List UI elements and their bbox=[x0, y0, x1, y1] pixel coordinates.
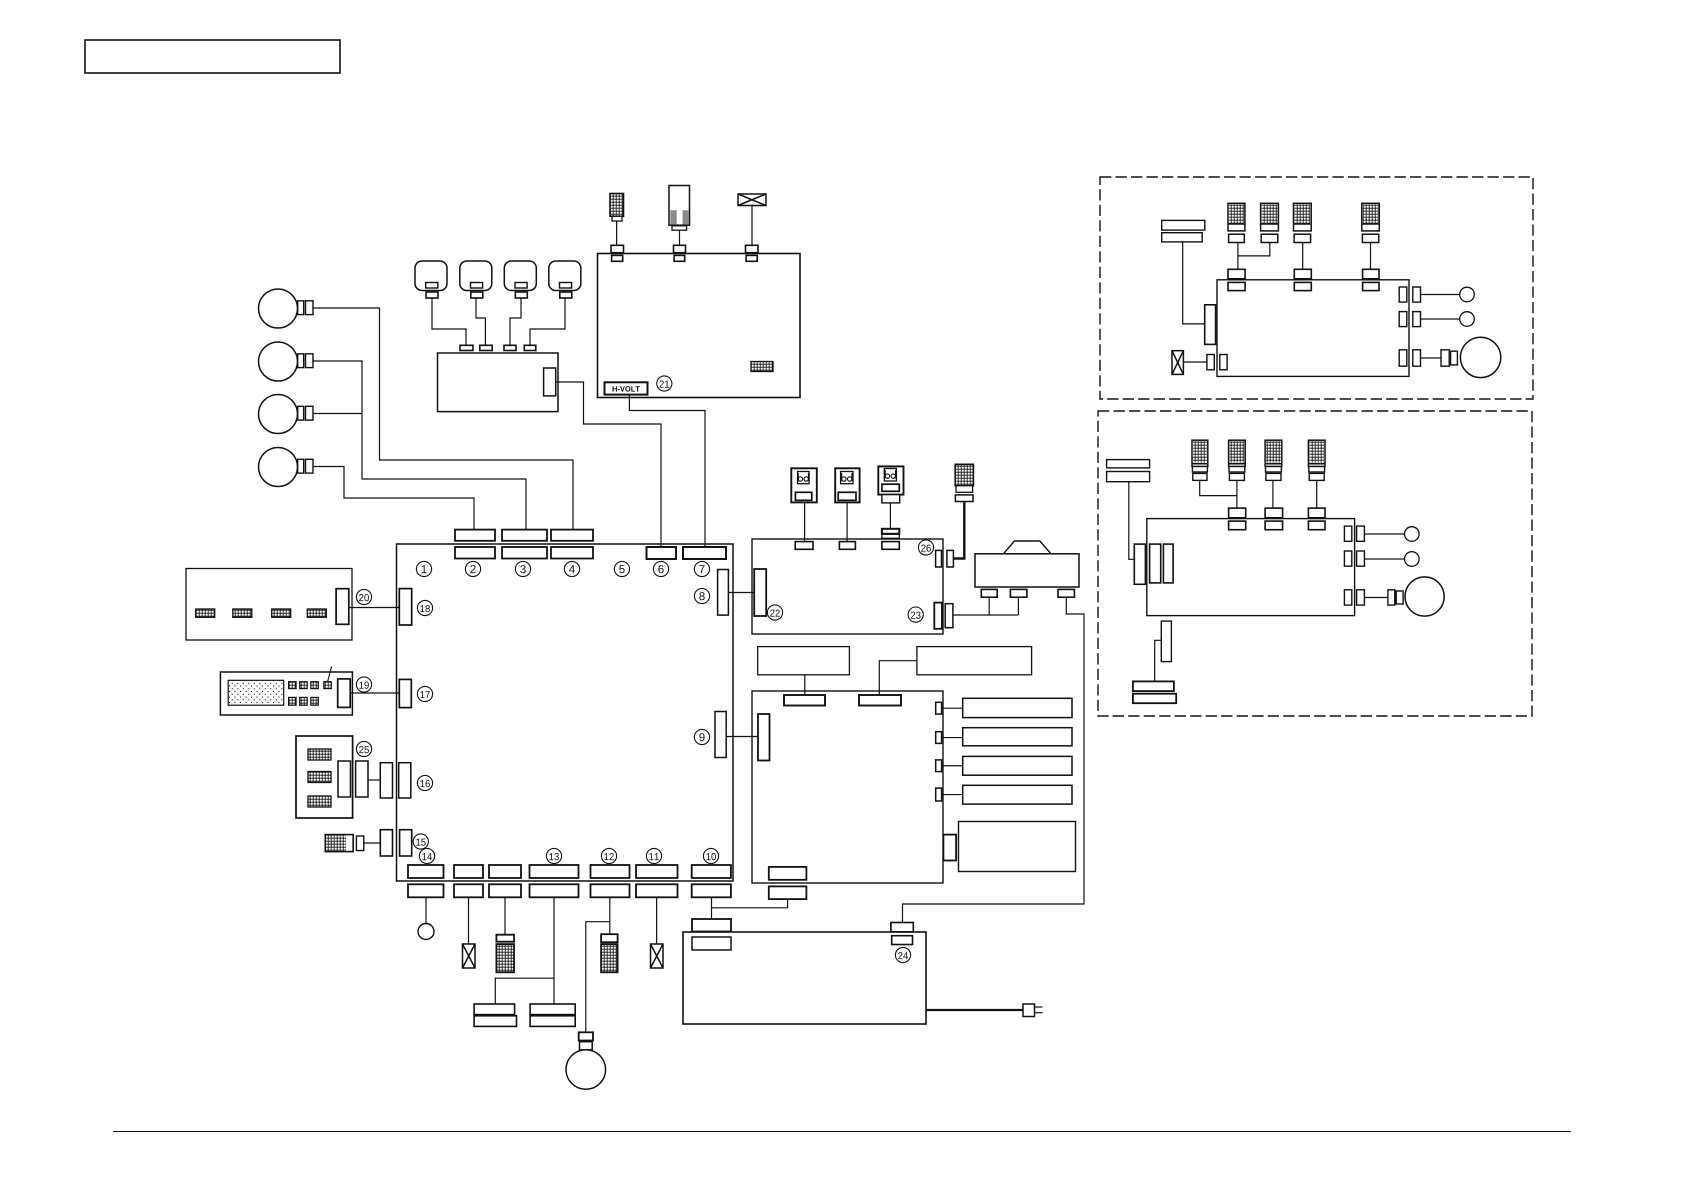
connector CN17 bbox=[399, 679, 411, 707]
connector chain 15a bbox=[380, 830, 392, 856]
wire SL3 bbox=[510, 298, 521, 345]
option slot box 2 bbox=[963, 728, 1072, 746]
connector pair main board bottom x489 bbox=[489, 865, 521, 897]
node label 1 bbox=[416, 561, 431, 576]
connector PCB2 right #2 bbox=[936, 732, 942, 744]
clutch CL6 (hatched) bbox=[1229, 440, 1246, 480]
clutch CL2 (hatched) bbox=[1261, 203, 1279, 242]
option unit 1 dashed outline bbox=[1100, 177, 1533, 399]
AC noise filter unit bbox=[975, 541, 1079, 587]
footer rule bbox=[113, 1131, 1571, 1133]
wire CL7 bbox=[1272, 480, 1274, 508]
hatched component on HV board bbox=[751, 362, 773, 372]
clutch CL7 (hatched) bbox=[1265, 440, 1282, 480]
connector PCB2 top2 bbox=[859, 695, 901, 706]
stacked connector component bbox=[1133, 681, 1176, 703]
connector 22 on fuser left bbox=[754, 569, 766, 616]
sub board A (solenoid driver) bbox=[438, 353, 559, 412]
clutch CL4 (hatched) bbox=[1362, 203, 1380, 242]
toner solenoid SL2 bbox=[460, 261, 492, 298]
wire CB bbox=[679, 230, 681, 245]
wire B1 bbox=[804, 675, 806, 695]
interlock switch box 25 bbox=[296, 736, 353, 818]
key block row1 bbox=[324, 682, 332, 689]
connector pair bottom left under 13 bbox=[474, 1004, 516, 1026]
wire 23 to AC unit bbox=[953, 614, 1019, 616]
connector PCB2 right #4 bbox=[936, 788, 942, 801]
wire 10 down bbox=[711, 897, 713, 919]
wire PS1 bbox=[804, 502, 806, 541]
wire PS3 bbox=[889, 503, 891, 529]
wire sub board A to CN6 bbox=[556, 382, 661, 547]
node label 9 bbox=[694, 729, 709, 744]
label 20 bbox=[356, 589, 371, 604]
wire B2 bbox=[879, 661, 917, 695]
connector pair option board 2 right bbox=[1344, 590, 1364, 605]
connector pair on sub board A #1 bbox=[460, 345, 473, 359]
sensor circle 1 bbox=[1460, 287, 1475, 302]
wire to sensor circle 4 bbox=[1364, 558, 1404, 560]
toner solenoid SL1 bbox=[415, 261, 447, 298]
connector sub board A right bbox=[544, 368, 556, 396]
wire option solenoid bbox=[1183, 361, 1207, 363]
option box B2 bbox=[917, 647, 1032, 675]
key block row2 bbox=[311, 697, 319, 705]
key block row1 bbox=[300, 682, 308, 689]
connector pair on sub board A #2 bbox=[480, 345, 492, 359]
clutch CL8 (hatched) bbox=[1308, 440, 1325, 480]
connector PS2 on fuser bbox=[839, 542, 855, 550]
wire to sensor circle 1 bbox=[1421, 294, 1460, 296]
connector pair main board bottom x590.5 bbox=[591, 865, 630, 897]
wire 25 bbox=[368, 779, 380, 781]
wire to option slot 4 bbox=[942, 794, 963, 796]
connector pair on HV board top bbox=[746, 245, 759, 261]
connector AC c1 bbox=[981, 589, 997, 597]
node label 14 bbox=[419, 848, 434, 863]
option slot box 4 bbox=[963, 785, 1072, 804]
wire 20-18 bbox=[349, 607, 400, 609]
connector CN7 bbox=[683, 547, 726, 559]
label 22 bbox=[767, 605, 782, 620]
connector above PSU bbox=[692, 919, 731, 932]
wire to sensor circle 3 bbox=[1364, 533, 1404, 535]
connector CN16 bbox=[399, 763, 411, 798]
crossed-box component (heater) bbox=[738, 194, 766, 206]
wire SL4 bbox=[530, 298, 565, 345]
connector pair option board 2 right bbox=[1344, 526, 1364, 541]
hatched LED block bbox=[272, 609, 291, 617]
label 25 bbox=[356, 741, 371, 756]
connector pair main board bottom x691.7 bbox=[692, 865, 731, 897]
callout line bbox=[327, 666, 331, 682]
connector pair bottom right under 13 bbox=[530, 1004, 575, 1026]
sensor 15 (hatched) bbox=[325, 835, 364, 852]
board label 21 bbox=[657, 376, 672, 391]
connector pair main board bottom x408 bbox=[408, 865, 444, 897]
key block row1 bbox=[289, 682, 297, 689]
node label 15 bbox=[413, 834, 428, 849]
wire HV board to CN7 bbox=[629, 395, 705, 547]
node label 13 bbox=[546, 848, 561, 863]
connector pair option board 2 top bbox=[1308, 508, 1325, 530]
node label 17 bbox=[417, 686, 432, 701]
connector PCB2 right #1 bbox=[936, 702, 942, 714]
connector box20 right bbox=[336, 589, 349, 625]
wire to option slot 2 bbox=[942, 737, 963, 739]
label 26 bbox=[918, 540, 933, 555]
wire SL1 bbox=[432, 298, 466, 345]
connector group option board 2 left bbox=[1134, 544, 1173, 584]
hatched LED block bbox=[307, 609, 326, 617]
option unit 2 dashed outline bbox=[1098, 411, 1532, 716]
option board PCB4 bbox=[1147, 519, 1355, 616]
wire pair3 bbox=[504, 897, 506, 934]
wire CL6 bbox=[1236, 480, 1238, 508]
connector CN3 bbox=[502, 530, 547, 559]
connector PS3 on fuser bbox=[882, 542, 899, 550]
low-voltage power supply box 24 bbox=[683, 932, 926, 1024]
connector CN18 bbox=[399, 589, 411, 625]
node label 11 bbox=[646, 848, 661, 863]
label 19 bbox=[356, 677, 371, 692]
connector pair option board right bbox=[1399, 350, 1420, 366]
node label 5 bbox=[614, 561, 629, 576]
wire to option motor bbox=[1421, 357, 1442, 359]
connector pair main board bottom x454 bbox=[454, 865, 483, 897]
wire TS1 to 26 bbox=[953, 502, 964, 559]
connector chain 25b bbox=[380, 763, 392, 798]
connector pair option board top bbox=[1294, 269, 1311, 290]
wire PS2 bbox=[846, 502, 848, 541]
connector pair option board right bbox=[1399, 312, 1420, 327]
connector PCB2 top1 bbox=[784, 695, 825, 706]
wire CL5 join bbox=[1200, 480, 1237, 495]
node label 2 bbox=[465, 561, 480, 576]
hatched switch block bbox=[308, 796, 331, 807]
fan motor M3 bbox=[259, 395, 314, 434]
connector CN2 bbox=[455, 530, 495, 559]
wire 15 bbox=[364, 842, 381, 844]
wire heater bbox=[751, 206, 753, 246]
node label 10 bbox=[703, 848, 718, 863]
flat cable connector F2 bbox=[1107, 460, 1150, 482]
node label 16 bbox=[417, 775, 432, 790]
wire pair2 bbox=[468, 897, 470, 944]
key block row2 bbox=[300, 697, 308, 705]
wire AC c3 down right side bbox=[903, 597, 1085, 922]
wire TH1 bbox=[616, 221, 618, 245]
connector AC c2 bbox=[1010, 589, 1027, 597]
option box B3 bbox=[959, 822, 1076, 872]
fan motor M1 bbox=[259, 289, 314, 328]
fan motor M2 bbox=[259, 342, 314, 381]
toner solenoid SL4 bbox=[549, 261, 581, 298]
connector pair main board bottom x529.5 bbox=[530, 865, 579, 897]
wire PCB2 bottom to PSU bbox=[712, 899, 788, 908]
wire below option board 2 bbox=[1155, 640, 1162, 681]
hatched LED block bbox=[196, 609, 215, 617]
connector PS1 on fuser bbox=[795, 542, 813, 550]
wire 12 branch to main motor bbox=[586, 922, 610, 1033]
clutch CL5 (hatched) bbox=[1192, 440, 1208, 480]
sensor circle 3 bbox=[1405, 527, 1420, 542]
node label 6 bbox=[653, 561, 668, 576]
wire to option slot 3 bbox=[942, 765, 963, 767]
option slot box 1 bbox=[963, 698, 1072, 717]
option box B1 bbox=[758, 647, 850, 675]
connector below option board 2 bbox=[1161, 621, 1171, 662]
wire M4 to CN2 bbox=[313, 467, 474, 530]
connector pair option board right bbox=[1399, 287, 1420, 302]
fuser unit box bbox=[752, 539, 943, 634]
connector AC c3 bbox=[1058, 589, 1074, 597]
flat cable connector F1 bbox=[1162, 220, 1205, 242]
wire M3 junction bbox=[313, 413, 362, 415]
wire F1 bbox=[1183, 242, 1205, 324]
hatched switch block bbox=[308, 749, 331, 760]
connector pair option board 2 top bbox=[1229, 508, 1246, 530]
connector under PS3 bbox=[882, 495, 900, 503]
connector CN4 bbox=[551, 530, 593, 559]
hatched LED block bbox=[233, 609, 252, 617]
option motor M7 bbox=[1405, 577, 1444, 616]
connector PCB2 left bbox=[758, 714, 770, 761]
connector CN9 on main board bbox=[715, 712, 726, 758]
option motor M6 bbox=[1460, 337, 1500, 377]
connector pair option solenoid bbox=[1207, 355, 1227, 370]
connector pair main board bottom x636 bbox=[636, 865, 678, 897]
key block row1 bbox=[311, 682, 319, 689]
connector box25 right bbox=[338, 761, 351, 797]
high-voltage power board U21 bbox=[598, 254, 801, 398]
connector pair main motor bbox=[579, 1032, 593, 1050]
wire 14 to switch bbox=[425, 897, 427, 923]
wire to sensor circle 2 bbox=[1421, 318, 1460, 320]
connector pair option board top bbox=[1228, 269, 1245, 290]
toner solenoid SL3 bbox=[504, 261, 536, 298]
key block row2 bbox=[289, 697, 297, 705]
node label 18 bbox=[417, 600, 432, 615]
crossed-box solenoid SL6 bbox=[651, 944, 664, 968]
engine sub board PCB2 bbox=[752, 691, 943, 883]
dotted keypad area bbox=[228, 680, 284, 705]
node label 8 bbox=[694, 588, 709, 603]
label 24 bbox=[895, 947, 910, 962]
thermostat TS1 (hatched) bbox=[955, 464, 973, 501]
wire to option motor 2 bbox=[1364, 597, 1388, 599]
wire SL2 bbox=[476, 298, 485, 345]
wire CL8 bbox=[1316, 480, 1318, 508]
connector pair option board 2 right bbox=[1344, 551, 1364, 566]
thermistor TH1 (hatched) bbox=[610, 194, 624, 222]
connector pair 26 bbox=[936, 550, 954, 567]
connector pair on sub board A #4 bbox=[524, 345, 536, 359]
wire to option slot 1 bbox=[942, 707, 963, 709]
connector pair option board top bbox=[1363, 269, 1379, 290]
option board PCB3 bbox=[1217, 280, 1409, 377]
connector CN15 bbox=[400, 830, 412, 856]
H-VOLT label box bbox=[605, 382, 648, 394]
main control board PCB1 bbox=[397, 544, 734, 881]
fan motor M4 bbox=[259, 448, 314, 487]
connector PCB2 bottom right bbox=[943, 835, 956, 861]
connector box19 right bbox=[338, 679, 351, 708]
title box bbox=[85, 40, 340, 73]
wire CN9 to PCB2 bbox=[726, 736, 758, 738]
connector pair PCB2 bottom left bbox=[769, 867, 807, 899]
crossed-box solenoid SL5 bbox=[463, 944, 476, 968]
photo sensor PS1 (bd) bbox=[791, 468, 817, 502]
connector pair option motor bbox=[1441, 350, 1457, 366]
node label 3 bbox=[515, 561, 530, 576]
hatched switch block bbox=[308, 772, 331, 783]
connector inside PSU top left bbox=[692, 937, 731, 950]
power cord bbox=[926, 1009, 1023, 1011]
node label 4 bbox=[564, 561, 579, 576]
plug bbox=[1023, 1004, 1043, 1017]
wire M2 to CN3 bbox=[313, 361, 526, 530]
clutch CL3 (hatched) bbox=[1294, 203, 1312, 242]
photo sensor PS3 (bd) bbox=[878, 466, 903, 494]
wire 19-17 bbox=[350, 692, 399, 694]
connector pair PS3 bbox=[882, 529, 899, 539]
connector pair on HV board top bbox=[611, 245, 624, 261]
connector CN6 bbox=[647, 547, 677, 559]
connector pair option board left bbox=[1205, 304, 1229, 344]
main motor M5 bbox=[566, 1050, 606, 1090]
sensor circle 4 bbox=[1405, 552, 1420, 567]
wire 13 branch bbox=[495, 978, 554, 1004]
connector PCB2 right #3 bbox=[936, 760, 942, 772]
wire 12 bbox=[609, 897, 611, 934]
connector pair on sub board A #3 bbox=[504, 345, 516, 359]
wire CL3 bbox=[1302, 243, 1304, 270]
wire CL4 bbox=[1370, 243, 1372, 270]
wire CL1 bbox=[1237, 243, 1239, 270]
operator panel box 20 bbox=[186, 569, 352, 641]
connector pair on HV board top bbox=[674, 245, 686, 261]
connector pair 23 bbox=[934, 603, 953, 629]
sensor with hatch (pair3) bbox=[496, 935, 514, 973]
connector CN8 on main board bbox=[718, 570, 729, 616]
option slot box 3 bbox=[963, 756, 1072, 775]
connector component CB (two contacts) bbox=[669, 186, 690, 231]
connector pair option motor 2 bbox=[1388, 590, 1403, 605]
wire CL2 join bbox=[1238, 243, 1270, 256]
node label 7 bbox=[694, 561, 709, 576]
sensor circle 2 bbox=[1460, 312, 1475, 327]
wire F2 bbox=[1129, 482, 1135, 560]
photo sensor PS2 (bd) bbox=[835, 468, 859, 502]
connector pair PSU top right bbox=[891, 923, 913, 945]
wire 13 bbox=[553, 897, 555, 1004]
connector chain 25a bbox=[356, 761, 368, 797]
wire 11 bbox=[656, 897, 658, 944]
control panel box 19 bbox=[220, 672, 352, 715]
label 23 bbox=[908, 607, 923, 622]
sensor with hatch (12) bbox=[601, 934, 618, 972]
wire CN8 to fuser bbox=[728, 592, 754, 594]
crossed-box solenoid option1 bbox=[1172, 351, 1183, 375]
connector pair option board 2 top bbox=[1265, 508, 1283, 530]
small switch circle bbox=[418, 924, 434, 940]
clutch CL1 (hatched) bbox=[1228, 203, 1245, 242]
wire M1 to CN4 bbox=[313, 308, 573, 530]
node label 12 bbox=[601, 848, 616, 863]
